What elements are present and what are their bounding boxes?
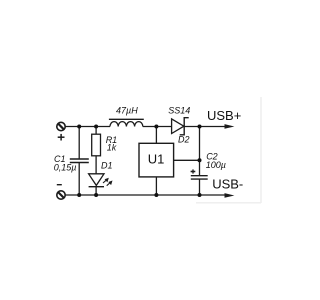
wire U1 top branch (155, 127, 157, 144)
inductor core bar (109, 118, 144, 120)
plus polarity mark C2 (191, 169, 196, 173)
svg-text:47µH: 47µH (116, 106, 138, 116)
svg-text:D2: D2 (178, 135, 190, 145)
faint scan line right edge (196, 97, 261, 203)
terminal + (input positive) (57, 122, 65, 130)
wire top rail: terminal to inductor (65, 126, 110, 128)
resistor R1 branch wire upper (95, 127, 97, 135)
op-amp / IC U1 box (139, 143, 174, 177)
wire bottom rail (65, 194, 226, 196)
LED D1 branch wire lower (95, 187, 97, 195)
capacitor C2 branch wire lower (199, 180, 201, 196)
svg-text:USB+: USB+ (207, 108, 241, 123)
LED D1 emission arrow 2 (107, 181, 113, 186)
LED D1 triangle (89, 174, 104, 186)
resistor R1 body (92, 134, 101, 156)
inductor L1 47uH coil (110, 122, 143, 127)
capacitor C1 branch wire lower (78, 163, 80, 195)
schottky diode D2 cathode bar with hooks (180, 118, 189, 135)
schottky diode D2 triangle (172, 119, 184, 134)
minus polarity mark (input) (57, 184, 62, 186)
plus polarity mark (input) (58, 134, 65, 141)
svg-text:0,15µ: 0,15µ (54, 162, 77, 172)
wire U1 bottom branch (155, 177, 157, 195)
terminal - (input negative) (57, 191, 65, 199)
wire U1 output to C2 (174, 159, 200, 161)
LED D1 cathode bar (89, 186, 104, 188)
capacitor C1 branch wire upper (78, 127, 80, 159)
svg-text:100µ: 100µ (206, 160, 226, 170)
USB+ arrowhead (225, 124, 235, 129)
capacitor C2 plates (191, 175, 208, 177)
svg-text:SS14: SS14 (168, 106, 190, 116)
USB- arrowhead (225, 193, 235, 198)
wire R1 to LED D1 (95, 156, 97, 174)
svg-text:1k: 1k (107, 143, 117, 153)
svg-text:U1: U1 (148, 152, 165, 167)
LED D1 emission arrow 1 (103, 178, 109, 183)
junction node dots (77, 125, 201, 198)
svg-text:USB-: USB- (212, 177, 243, 192)
wire top rail: diode to USB+ arrow (184, 126, 226, 128)
svg-text:D1: D1 (101, 161, 113, 171)
capacitor C1 plates (70, 158, 89, 160)
capacitor C2 branch wire upper (199, 127, 201, 176)
wire top rail: inductor to diode (143, 126, 172, 128)
